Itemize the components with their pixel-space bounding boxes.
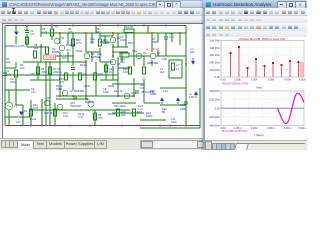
resistor R18 (94, 73, 97, 80)
hscrollbar (140, 140, 206, 149)
wire vertical x38 (37, 62, 39, 80)
svg-text:2K2: 2K2 (120, 60, 125, 64)
chart2 grid (221, 91, 304, 125)
svg-text:Q9: Q9 (46, 96, 50, 100)
wire vertical x100 (99, 33, 101, 62)
svg-text:Q7 BC546B: Q7 BC546B (70, 89, 84, 93)
svg-text:2.2u: 2.2u (6, 72, 12, 76)
probe arrow 2 (177, 98, 180, 104)
svg-text:1K: 1K (109, 70, 112, 74)
svg-text:Q2: Q2 (66, 48, 70, 52)
wire horizontal y47 (27, 46, 128, 48)
svg-text:4K7: 4K7 (96, 30, 101, 34)
transistor Q9 (44, 100, 50, 106)
transistor Q8 (62, 90, 68, 96)
left title bar (0, 0, 204, 8)
wire horizontal y36 (100, 35, 113, 37)
svg-text:3.3n: 3.3n (180, 103, 186, 107)
wire vertical x96 mid (95, 62, 97, 96)
diode D1 (14, 32, 19, 36)
wire vertical x152 (151, 33, 153, 66)
wire stub top x96 (95, 26, 97, 34)
wire horizontal y90 (5, 89, 30, 91)
svg-text:47u: 47u (16, 120, 21, 124)
transistor Q11 (88, 101, 94, 107)
svg-text:400.00m: 400.00m (210, 46, 221, 50)
wire vertical x118 (117, 33, 119, 96)
svg-text:8R: 8R (162, 110, 165, 114)
svg-text:1M04: 1M04 (146, 114, 153, 118)
wire horizontal y75 (5, 74, 118, 76)
transistor Q1 (54, 38, 60, 44)
left tab bar (0, 138, 204, 151)
wire V1 stubs (9, 90, 16, 126)
wire vertical x16 mid (15, 62, 17, 105)
wire stub x23 low (16, 105, 23, 126)
svg-text:0.47: 0.47 (33, 106, 39, 110)
resistor R27 (49, 67, 52, 74)
svg-text:2.2u: 2.2u (57, 70, 63, 74)
svg-text:10K: 10K (6, 60, 11, 64)
svg-text:22K: 22K (53, 70, 58, 74)
svg-text:Ic = 40 mA: Ic = 40 mA (146, 47, 160, 51)
svg-text:2.00m: 2.00m (250, 126, 258, 130)
resistor R6 (34, 51, 37, 58)
transistor Q5 (110, 59, 116, 65)
wire horizontal y52 mid (112, 51, 128, 53)
svg-text:t (Secs): t (Secs) (254, 133, 263, 137)
svg-text:22K: 22K (30, 72, 35, 76)
wire right rail (185, 26, 187, 126)
resistor R21 (143, 67, 146, 74)
svg-text:1K: 1K (83, 72, 86, 76)
wire vertical x68 (67, 33, 69, 56)
svg-text:R10a: R10a (76, 49, 83, 53)
wire vertical x52 (51, 26, 53, 41)
capacitor C15 (136, 90, 138, 94)
svg-text:3.00m: 3.00m (267, 126, 275, 130)
output network box (169, 60, 182, 78)
wire vertical x158 (157, 33, 159, 56)
svg-text:4.7K: 4.7K (76, 41, 82, 45)
wire vertical x55 low (54, 103, 56, 126)
left window buttons (156, 1, 165, 9)
wire horizontal y68 left (5, 67, 16, 69)
wire long-tail pair (46, 61, 50, 126)
probe arrow 4 (161, 98, 164, 104)
cursor band (300, 62, 304, 77)
wire vertical x172 (171, 33, 173, 42)
svg-text:BC546B: BC546B (66, 43, 76, 47)
svg-text:150R: 150R (56, 87, 62, 91)
resistor R26 (37, 67, 40, 74)
svg-text:10p: 10p (34, 46, 39, 50)
svg-text:R21 1K: R21 1K (114, 89, 123, 93)
svg-text:56K: 56K (121, 113, 126, 117)
svg-text:0R47: 0R47 (84, 84, 91, 88)
wire vertical x180 (179, 33, 181, 45)
svg-text:3.00k: 3.00k (268, 78, 275, 82)
svg-text:4.7: 4.7 (176, 63, 180, 67)
resistor R7 (46, 47, 49, 54)
transistor Q7 (150, 53, 156, 59)
wire vertical x166 (165, 33, 167, 56)
resistor R10 (72, 39, 75, 46)
svg-text:4.7K: 4.7K (59, 80, 65, 84)
svg-text:R13 4R: R13 4R (124, 25, 133, 29)
right window buttons (277, 1, 287, 9)
transistor Q3 (84, 53, 90, 59)
wire stub top x148 (147, 26, 149, 34)
capacitor C16 (74, 96, 76, 100)
svg-text:Q3a: Q3a (97, 52, 102, 56)
wire horizontal y68 (118, 67, 130, 69)
svg-text:100.00m: 100.00m (210, 68, 221, 72)
svg-text:V1: V1 (14, 104, 18, 108)
svg-text:4.00m: 4.00m (284, 126, 292, 130)
wire vertical x31 low (30, 100, 32, 126)
svg-text:R2: R2 (55, 25, 59, 29)
resistor R9 (94, 113, 97, 120)
svg-text:R16: R16 (128, 41, 133, 45)
svg-text:5.00m: 5.00m (298, 126, 306, 130)
wire vertical x42 low (41, 99, 43, 126)
wire top rail 1 (5, 25, 186, 27)
svg-text:OC3558C: OC3558C (45, 56, 57, 60)
svg-text:22p: 22p (90, 40, 95, 44)
svg-text:Vintage Mod AB_2006 to spec.CI: Vintage Mod AB_2006 to spec.CIR (239, 37, 286, 41)
voltage source V1 (5, 102, 13, 110)
probe arrow 1 (192, 58, 195, 64)
svg-text:100n: 100n (120, 38, 126, 42)
svg-text:Q6: Q6 (143, 51, 147, 55)
right bottom tab bar (205, 140, 307, 151)
wire horizontal y62 (23, 61, 113, 63)
svg-text:2N5 74: 2N5 74 (44, 111, 53, 115)
svg-text:10R: 10R (123, 70, 128, 74)
svg-text:1K5: 1K5 (68, 30, 73, 34)
wire top rail 2 (41, 32, 186, 34)
chart2 x labels (220, 126, 306, 130)
wire horizontal y80 (30, 79, 118, 81)
capacitor C9 (164, 33, 168, 42)
wire horizontal y88 (160, 87, 186, 89)
wire vertical x113 (112, 33, 114, 80)
svg-text:2.2K: 2.2K (42, 30, 48, 34)
wire horizontal y84 (112, 83, 144, 85)
wire horizontal y103 (112, 102, 160, 104)
flat blue trace (221, 107, 304, 109)
svg-text:Q1: Q1 (61, 36, 65, 40)
resistor R17 (54, 109, 57, 116)
wire vertical x144 (143, 56, 145, 103)
diode D2 (19, 112, 24, 116)
left toolbar row1 (0, 8, 204, 16)
svg-text:200.00m: 200.00m (210, 98, 221, 102)
svg-text:2SB746B: 2SB746B (147, 61, 158, 65)
svg-text:-200.00m: -200.00m (209, 115, 221, 119)
wire vertical x105 top (104, 36, 106, 44)
resistor R32 (120, 53, 129, 57)
resistor R14 (65, 73, 68, 80)
resistor R29 (133, 109, 136, 116)
svg-text:2u2: 2u2 (160, 70, 165, 74)
wire horizontal y52 (86, 51, 100, 53)
svg-text:R29: R29 (137, 110, 142, 114)
svg-text:300.00m: 300.00m (210, 53, 221, 57)
chart1 plot area (221, 41, 304, 78)
svg-text:A992: A992 (152, 40, 159, 44)
svg-text:47n: 47n (140, 86, 145, 90)
svg-text:R14a: R14a (80, 63, 87, 67)
capacitor C12 (184, 98, 188, 108)
svg-text:4.00k: 4.00k (284, 78, 291, 82)
charts (205, 37, 307, 140)
schematic canvas (2, 23, 205, 140)
wire vertical x27 (26, 26, 28, 48)
wire vertical x73 (72, 33, 74, 90)
wire vertical x126 (125, 33, 127, 47)
svg-text:VF1(4.98m)=375.51m: VF1(4.98m)=375.51m (222, 129, 249, 133)
svg-text:1K2: 1K2 (20, 66, 25, 70)
svg-text:C14: C14 (163, 89, 168, 93)
svg-text:500.00m: 500.00m (210, 39, 221, 43)
resistor R28 (117, 109, 120, 116)
wire horizontal y117 (5, 116, 30, 118)
transistor Q12 (124, 93, 130, 99)
wire vertical x16 (15, 26, 17, 45)
wire horizontal y42 (100, 41, 110, 43)
resistor R25 (105, 65, 108, 72)
stem markers (230, 46, 300, 69)
svg-text:R22 4K02: R22 4K02 (114, 104, 126, 108)
wire horizontal y96 (56, 95, 134, 97)
svg-text:100u: 100u (10, 80, 16, 84)
svg-text:1K5: 1K5 (62, 56, 67, 60)
svg-text:47u: 47u (30, 32, 35, 36)
transistor Q10 (57, 104, 63, 110)
transistor Q2 (59, 45, 65, 51)
resistor R31 (15, 70, 18, 77)
wire vertical x95 low (94, 110, 96, 126)
svg-text:220R: 220R (150, 92, 156, 96)
svg-text:200.00m: 200.00m (210, 61, 221, 65)
svg-text:0.47: 0.47 (78, 115, 84, 119)
wire vertical x106 (105, 62, 107, 80)
resistor R11 (99, 39, 102, 46)
wire horizontal y120 (140, 119, 166, 121)
chart1 grid (221, 41, 304, 78)
svg-text:220u: 220u (180, 107, 186, 111)
svg-text:30V: 30V (190, 50, 195, 54)
svg-text:4.7u: 4.7u (169, 35, 175, 39)
capacitor C2 (25, 31, 29, 33)
svg-text:-400.00m: -400.00m (209, 124, 221, 128)
svg-text:330: 330 (41, 70, 46, 74)
wire horizontal y56 (56, 55, 186, 57)
feedback box bottom (140, 88, 200, 128)
wire vertical x134 (133, 33, 135, 96)
capacitor C1 on left rail (3, 73, 7, 76)
wire bottom rail (5, 125, 200, 127)
svg-text:1.00k: 1.00k (234, 78, 241, 82)
resistor R12 (30, 109, 33, 116)
wire horizontal y113 (112, 112, 144, 114)
resistor R20 (129, 67, 132, 74)
svg-text:W04/BR-6-47V/5: W04/BR-6-47V/5 (5, 44, 25, 48)
svg-text:0.47: 0.47 (63, 114, 69, 118)
component value labels (5, 25, 195, 125)
svg-text:2SC5200: 2SC5200 (70, 104, 81, 108)
svg-text:BD250: BD250 (108, 112, 116, 116)
highlighted label OC3558C (44, 55, 56, 60)
wire horizontal y105 (160, 104, 186, 106)
svg-text:D2: D2 (24, 109, 28, 113)
svg-text:100p: 100p (103, 90, 109, 94)
svg-text:2.00k: 2.00k (251, 78, 258, 82)
svg-text:150R: 150R (103, 41, 109, 45)
resistor R4 (26, 37, 29, 44)
chart2 plot area (221, 91, 304, 125)
wire left rail (4, 26, 6, 126)
transistor Q4 (110, 37, 116, 43)
wire vertical x68 long (67, 56, 69, 62)
wire vertical x86 (85, 33, 87, 99)
sine trace VF1 (278, 93, 305, 123)
chart1 y labels (210, 39, 221, 80)
wire vertical x122 mid (121, 52, 123, 62)
svg-text:5.00k: 5.00k (299, 78, 306, 82)
wire vertical x41 (40, 26, 42, 63)
svg-text:R18: R18 (98, 72, 103, 76)
sine mark in V1 (7, 105, 11, 107)
svg-text:Q12: Q12 (131, 91, 136, 95)
svg-text:0.00: 0.00 (220, 78, 226, 82)
probe arrow 3 (195, 92, 198, 98)
transistor Q6 (136, 53, 142, 59)
wire horizontal y99 (56, 98, 88, 100)
svg-text:BC556: BC556 (52, 50, 60, 54)
junction dots (15, 25, 187, 127)
svg-text:1J: 1J (176, 67, 179, 71)
wire vertical x60 (59, 33, 61, 96)
svg-text:BD249: BD249 (85, 100, 93, 104)
left toolbar row2 (0, 16, 204, 24)
svg-text:10R: 10R (162, 57, 167, 61)
resistor R15 (79, 73, 82, 80)
svg-text:400.00m: 400.00m (210, 89, 221, 93)
resistor R2 (51, 29, 54, 36)
svg-text:R12a: R12a (30, 117, 37, 121)
chart1 x labels (220, 78, 306, 82)
capacitor C5 (71, 68, 75, 70)
svg-text:1.8V: 1.8V (189, 95, 195, 99)
svg-text:47u: 47u (31, 90, 36, 94)
resistor R24 (172, 63, 175, 70)
chart2 y labels (209, 89, 221, 127)
svg-text:Q6a: Q6a (132, 49, 137, 53)
svg-text:100n: 100n (171, 120, 177, 124)
right title bar (203, 0, 307, 9)
wire vertical x50 (49, 62, 51, 80)
wire right rail 2 (199, 88, 201, 126)
svg-text:1K8: 1K8 (98, 116, 103, 120)
svg-text:THD(VF1(P))=0.374%: THD(VF1(P))=0.374% (222, 82, 249, 86)
harmonic stems (231, 47, 299, 77)
svg-text:0.00: 0.00 (215, 106, 221, 110)
svg-text:f (Hz): f (Hz) (256, 85, 263, 89)
svg-text:Q7: Q7 (157, 51, 161, 55)
resistor R13 horizontal (124, 29, 134, 33)
wire horizontal y110 (30, 109, 130, 111)
svg-text:R18a: R18a (108, 84, 115, 88)
right toolbars (205, 8, 307, 16)
wire vertical x92 (91, 33, 93, 62)
